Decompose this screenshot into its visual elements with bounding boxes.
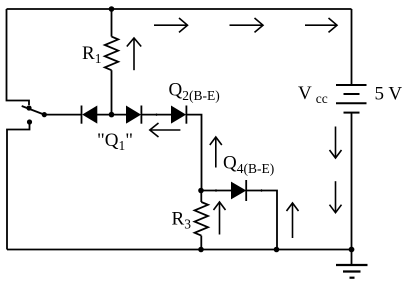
diode Q1 B-E left (points left)	[82, 106, 97, 124]
wire Q4 to corner and down	[246, 191, 277, 250]
arrow down right rail 2	[330, 181, 342, 213]
resistor R1	[105, 37, 118, 71]
svg-text:5 V: 5 V	[375, 84, 403, 105]
pin tick left of Q4 diode	[215, 189, 217, 191]
arrow down right rail 1	[330, 127, 342, 159]
wire between left and middle diode	[97, 114, 127, 116]
wire R3 node to diode Q4	[201, 190, 232, 192]
wire pole to diode D1	[44, 114, 81, 116]
diode Q1 B-C middle (points right)	[127, 106, 142, 124]
wire right rail lower	[351, 113, 353, 265]
arrow up beside Q4 label	[210, 137, 222, 168]
wire Q2 to corner and down	[186, 115, 201, 191]
pin tick on wire	[156, 114, 158, 116]
wire left rail upper	[7, 9, 30, 105]
switch pole	[42, 112, 47, 117]
arrow up beside R3	[214, 202, 226, 235]
ground	[336, 265, 368, 278]
node R3 top junction dot	[198, 188, 204, 194]
wire right rail upper	[351, 9, 353, 84]
wire lower throw to left rail	[7, 122, 30, 250]
node diode row junction dot	[109, 112, 115, 118]
wire R1 bottom lead	[111, 70, 113, 114]
resistor R3	[195, 202, 208, 236]
wire R1 top lead	[111, 9, 113, 37]
node R3 bottom dot	[198, 247, 204, 253]
node bottom right of Q4 dot	[274, 247, 280, 253]
switch upper throw contact	[26, 105, 31, 110]
arrow up right of Q4 drop	[287, 203, 299, 238]
arrow right top 2	[230, 18, 264, 32]
arrow up beside R1	[127, 38, 141, 70]
node top junction dot	[109, 6, 115, 12]
wire bottom rail	[7, 249, 352, 251]
node ground junction dot	[349, 247, 355, 253]
arrow right top 3	[305, 18, 337, 32]
arrow left below diodes	[150, 123, 181, 137]
arrow right top 1	[154, 18, 188, 32]
wire between middle and Q2 diode	[141, 114, 171, 116]
switch blade	[22, 106, 45, 115]
pin tick right of Q4 diode	[261, 189, 263, 191]
battery Vcc	[336, 85, 367, 113]
svg-text:"Q1": "Q1"	[97, 130, 133, 153]
diode Q2 B-E (points right)	[172, 106, 187, 124]
wire top rail	[7, 8, 352, 10]
switch lower throw contact	[27, 119, 32, 124]
wire R3 top lead	[200, 191, 202, 203]
wire R3 bottom lead	[200, 236, 202, 250]
diode Q4 B-E (points right)	[232, 180, 247, 201]
